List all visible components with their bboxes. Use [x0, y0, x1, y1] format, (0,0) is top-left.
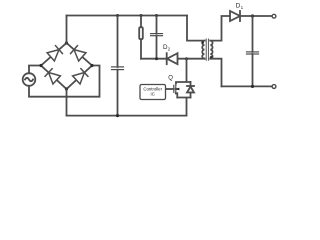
resistor R1 snubber [139, 16, 143, 59]
svg-text:2: 2 [168, 46, 171, 51]
wire primary top feed [187, 16, 205, 41]
diode bridge D_d bottom-right [73, 68, 89, 84]
node drain tap [185, 57, 188, 60]
wire bridge top riser [66, 16, 68, 44]
transformer T1 primary winding [202, 41, 204, 59]
node top rail C2 tap [155, 14, 158, 17]
wire D1 to output [240, 15, 272, 17]
node top rail C1 tap [116, 14, 119, 17]
transformer T1 secondary phase dot [210, 56, 213, 59]
wire top rail [67, 15, 188, 17]
label D2 [163, 44, 171, 51]
node snubber C2 bottom [155, 57, 158, 60]
label D1 [236, 2, 244, 10]
terminal output minus [272, 85, 276, 89]
svg-text:Q: Q [168, 75, 173, 81]
node bridge left [39, 64, 42, 67]
diode body of Q1 [187, 82, 194, 98]
node output top [251, 14, 254, 17]
transformer T1 primary phase dot [201, 41, 204, 44]
node output bottom [251, 85, 254, 88]
wire source bottom to bridge right node [29, 66, 100, 97]
wire drain descent [176, 59, 191, 83]
wire bottom rail [67, 115, 187, 117]
transformer T1 secondary winding [210, 41, 212, 59]
node bridge bottom [65, 87, 68, 90]
wire secondary bottom rail [222, 85, 273, 87]
diode D1 output rectifier [230, 11, 240, 21]
node top rail R1 tap [140, 14, 143, 17]
diode D2 clamp [167, 53, 178, 64]
wire bridge frame [41, 43, 92, 89]
wire source top to bridge left node [29, 66, 41, 74]
ac source V1 [23, 73, 36, 86]
wire secondary top riser [210, 16, 230, 41]
node bridge right [90, 64, 93, 67]
wire snubber row [141, 58, 205, 60]
capacitor C2 snubber [151, 16, 163, 59]
diode bridge D_b top-right [70, 45, 86, 61]
capacitor C3 output [247, 16, 259, 86]
transformer T1 core [206, 39, 208, 60]
terminal output plus [272, 14, 276, 18]
controller IC U1 box [140, 85, 166, 100]
diode bridge D_c bottom-left [45, 68, 61, 84]
node bridge top [65, 41, 68, 44]
capacitor C1 bulk input [112, 16, 124, 116]
transistor Q1 mosfet [166, 83, 180, 97]
diode bridge D_a top-left [47, 45, 63, 61]
wire source to rail [177, 98, 190, 116]
svg-text:1: 1 [241, 5, 244, 10]
wire secondary bottom drop [210, 59, 221, 87]
svg-text:IC: IC [151, 91, 155, 96]
node bottom rail C1 [116, 114, 119, 117]
wire bridge bottom drop [66, 89, 68, 116]
